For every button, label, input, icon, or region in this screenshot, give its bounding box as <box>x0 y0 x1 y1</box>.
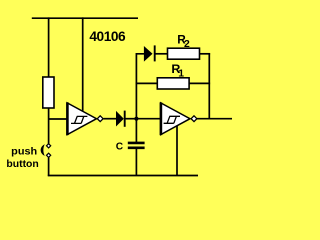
wire left vertical upper segment <box>48 17 50 78</box>
wire R1 to right vertical <box>189 82 210 84</box>
inverter U2 hysteresis symbol <box>164 116 180 123</box>
inverter U2 input bar <box>160 102 163 135</box>
push button contact bottom <box>47 153 51 157</box>
wire R2 to right vertical <box>200 53 211 55</box>
wire R1 branch left <box>136 82 158 84</box>
wire node to inverter2 input <box>136 118 161 120</box>
capacitor C top plate <box>128 142 145 145</box>
wire D1 to R2 <box>155 53 168 55</box>
wire input inverter1 <box>49 118 67 120</box>
svg-text:40106: 40106 <box>89 29 126 44</box>
wire bottom ground rail <box>48 175 198 177</box>
svg-text:1: 1 <box>178 69 184 80</box>
inverter U2 output bubble <box>191 116 197 122</box>
resistor R3 (left vertical) <box>43 77 54 108</box>
wire inverter2 bottom to ground rail <box>176 126 178 176</box>
inverter U2 body <box>161 103 190 135</box>
svg-text:button: button <box>6 159 38 170</box>
wire inverter1 output <box>104 118 118 120</box>
resistor R2 <box>168 48 200 59</box>
inverter U1 body <box>67 103 96 135</box>
wire node down to capacitor <box>135 119 137 142</box>
svg-text:C: C <box>116 142 124 153</box>
wire top supply rail <box>32 17 138 19</box>
capacitor C bottom plate <box>128 147 145 150</box>
diode D2 <box>117 112 124 125</box>
wire right vertical feedback <box>208 53 210 119</box>
wire push button to bottom rail <box>48 157 50 176</box>
wire diode D2 to node <box>125 118 137 120</box>
inverter U1 input bar <box>66 102 69 135</box>
diode D1 <box>144 47 151 60</box>
inverter U1 output bubble <box>97 116 103 122</box>
wire resistor to push button <box>48 108 50 145</box>
wire supply to inverter1 top <box>82 17 84 113</box>
resistor R1 <box>157 78 189 89</box>
push button actuator <box>41 144 45 156</box>
svg-text:2: 2 <box>184 39 190 50</box>
wire node up to diode D1 branch <box>136 54 144 119</box>
push button contact top <box>47 144 51 148</box>
node junction dot <box>134 117 138 121</box>
wire capacitor to ground rail <box>135 148 137 176</box>
wire inverter2 output <box>197 118 232 120</box>
inverter U1 hysteresis symbol <box>71 116 87 123</box>
svg-text:push: push <box>11 147 37 158</box>
